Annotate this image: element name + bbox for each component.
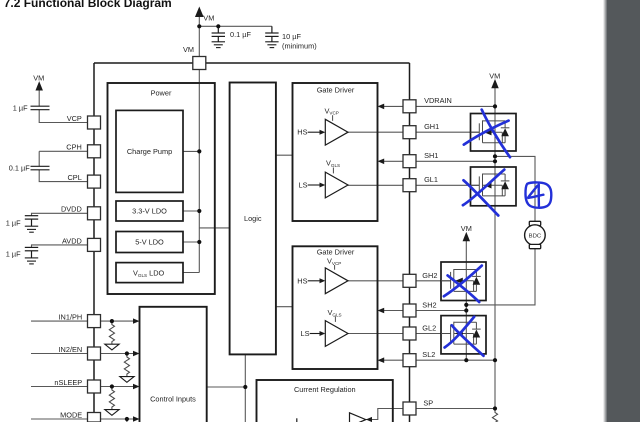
wire HS2 output to GH2 pin: [348, 280, 403, 282]
svg-text:GH1: GH1: [424, 122, 439, 131]
pin SH1: [403, 155, 416, 168]
svg-text:VDRAIN: VDRAIN: [424, 96, 452, 105]
svg-text:GH2: GH2: [422, 271, 437, 280]
wire SP pin to shunt node: [416, 408, 495, 410]
device outline left edge: [93, 63, 95, 422]
wire VM cap lead top left: [38, 89, 40, 106]
pulldown arrow R1: [105, 344, 119, 350]
gray sidebar panel: [607, 0, 640, 422]
svg-text:BDC: BDC: [529, 233, 542, 239]
device outline top edge: [94, 62, 410, 64]
svg-text:VM: VM: [183, 45, 194, 54]
wire FET1 source column: [494, 151, 496, 206]
amp HS1 triangle: [325, 119, 348, 145]
pin MODE: [88, 413, 101, 422]
wire CPH: [39, 150, 87, 152]
svg-text:VM: VM: [489, 71, 500, 80]
wire top bypass caps horizontal: [199, 25, 272, 27]
wire SH2 pin to FET node: [416, 310, 466, 312]
svg-text:SH2: SH2: [422, 300, 436, 309]
svg-text:0.1 µF: 0.1 µF: [230, 30, 251, 39]
arrow into gate driver 1 VDRAIN: [378, 104, 385, 110]
wire FET2 column between boxes: [465, 301, 467, 354]
wire LS1 output to GL1 pin: [348, 184, 403, 186]
block Gate Driver 1: [293, 83, 378, 221]
svg-text:1 µF: 1 µF: [13, 104, 28, 113]
annotation blue X over Q2: [463, 170, 504, 216]
arrow into control inputs nSLEEP: [133, 384, 140, 389]
wire Logic to Gate Driver 2: [276, 306, 293, 308]
arrow into control inputs IN1/PH: [133, 318, 140, 323]
wire GH2 pin to FET gate: [416, 280, 451, 282]
wire MODE: [31, 418, 136, 420]
svg-text:AVDD: AVDD: [62, 236, 82, 245]
pin GH2: [403, 274, 416, 287]
svg-text:CPL: CPL: [68, 173, 82, 182]
resistor R2 pulldown IN2/EN: [124, 354, 129, 377]
block 3.3-V LDO: [116, 201, 183, 221]
wire charge pump output stub: [183, 150, 199, 152]
capacitor C2 10uF top: [265, 26, 278, 42]
wire low-side FET2 source drop: [465, 354, 467, 360]
resistor R1 pulldown IN1/PH: [109, 321, 114, 344]
pin SH2: [403, 304, 416, 317]
pin GL1: [403, 179, 416, 192]
mosfet Q1 high-side box: [471, 114, 517, 152]
svg-text:SH1: SH1: [424, 151, 438, 160]
annotation blue circled A: [525, 182, 551, 207]
amp LS1 triangle: [325, 172, 348, 198]
pin CPL: [88, 175, 101, 188]
wire VM bus from VM pin down through Power block: [198, 70, 200, 273]
capacitor C4 0.1uF between CPH CPL: [31, 166, 50, 170]
block Control Inputs: [140, 307, 207, 422]
pin CPH: [88, 145, 101, 158]
svg-text:GL1: GL1: [424, 175, 438, 184]
capacitor C5 1uF at DVDD: [25, 216, 38, 227]
pin IN1/PH: [88, 315, 101, 328]
wire VDRAIN pin to FET drain: [416, 105, 495, 107]
wire SL2 pin to shunt node: [416, 359, 495, 361]
block Logic: [230, 83, 276, 355]
svg-text:VCP: VCP: [67, 114, 82, 123]
pin SP: [403, 402, 416, 415]
ground for C6: [25, 258, 38, 264]
arrow into gate driver 2 SH2: [378, 308, 385, 314]
block Power: [108, 83, 215, 294]
svg-text:SL2: SL2: [422, 350, 435, 359]
pin VM: [193, 57, 206, 70]
pulldown arrow R2: [120, 377, 134, 383]
block VGLS LDO: [116, 263, 183, 283]
svg-text:Logic: Logic: [244, 214, 262, 223]
wire nSLEEP: [31, 386, 136, 388]
wire VM drop through high-side FET 2: [465, 241, 467, 301]
wire GL1 pin to FET gate: [416, 184, 479, 186]
svg-text:VM: VM: [461, 224, 472, 233]
pin VCP: [88, 116, 101, 129]
svg-text:HS: HS: [297, 128, 307, 137]
ground for C5: [25, 226, 38, 232]
arrow into control inputs IN2/EN: [133, 351, 140, 356]
svg-text:CPH: CPH: [66, 143, 82, 152]
wire VDRAIN pin to gate driver 1: [384, 105, 403, 107]
svg-text:VGLS LDO: VGLS LDO: [133, 269, 165, 278]
wire CPH cap drop: [38, 151, 40, 166]
block Charge Pump: [116, 110, 183, 192]
wire IN2/EN: [31, 353, 136, 355]
wire SH2 pin to gate driver 2: [384, 310, 403, 312]
resistor R3 pulldown nSLEEP: [109, 387, 114, 410]
svg-text:SP: SP: [423, 399, 433, 408]
svg-text:VM: VM: [33, 74, 44, 83]
pin IN2/EN: [88, 347, 101, 360]
svg-text:Control Inputs: Control Inputs: [150, 394, 196, 403]
arrow into gate driver 1 SH1: [378, 159, 385, 165]
ground for C1: [212, 42, 225, 48]
wire DVDD: [32, 213, 88, 215]
pin VDRAIN: [403, 100, 416, 113]
svg-text:IN1/PH: IN1/PH: [59, 313, 83, 322]
svg-text:1 µF: 1 µF: [6, 249, 21, 258]
pulldown arrow R3: [105, 410, 119, 416]
wire Logic bottom down to current regulation: [244, 354, 246, 422]
block 5-V LDO: [116, 232, 183, 253]
mosfet Q4 internals: [441, 322, 481, 344]
arrow into gate driver 2 SL2: [378, 357, 385, 363]
svg-text:Gate Driver: Gate Driver: [317, 85, 355, 94]
svg-text:3.3-V LDO: 3.3-V LDO: [132, 207, 167, 216]
wire SH1 pin to gate driver 1: [384, 160, 403, 162]
block Gate Driver 2: [293, 246, 378, 369]
svg-text:IN2/EN: IN2/EN: [59, 345, 83, 354]
svg-text:DVDD: DVDD: [61, 205, 82, 214]
svg-text:LS: LS: [301, 329, 310, 338]
svg-text:7.2 Functional Block Diagram: 7.2 Functional Block Diagram: [4, 0, 172, 10]
wire GL2 pin to FET gate: [416, 333, 451, 335]
wire HS1 output to GH1 pin: [348, 131, 403, 133]
wire Control Inputs to logic drop: [207, 386, 246, 388]
pin AVDD: [88, 238, 101, 251]
wire SH1 pin to FET node: [416, 160, 495, 162]
wire VCP from cap to pin: [39, 110, 87, 123]
motor BDC body: [525, 225, 546, 246]
device outline right edge: [409, 63, 411, 422]
svg-text:nSLEEP: nSLEEP: [54, 378, 82, 387]
mosfet Q1 internals: [471, 120, 510, 142]
capacitor C3 1uF at VCP: [31, 106, 50, 110]
svg-text:0.1 µF: 0.1 µF: [9, 163, 30, 172]
pin GH1: [403, 126, 416, 139]
power symbol VM arrow top center: [196, 8, 203, 17]
current sense amp in current regulation: [350, 413, 366, 422]
VGLS stub 2: [334, 316, 336, 322]
wire Power to Logic: [199, 227, 229, 229]
HS1 input arrow: [308, 131, 321, 133]
resistor R4 pulldown MODE: [126, 419, 128, 422]
wire low-side FET1 source long drop to shunt: [494, 206, 496, 409]
power symbol VM arrow above Q3: [463, 233, 469, 241]
svg-text:LS: LS: [299, 181, 308, 190]
shunt resistor below SP node: [492, 409, 497, 422]
wire 5-V LDO stub: [183, 241, 199, 243]
wire GH1 pin to FET gate: [416, 131, 479, 133]
VVCP stub 2: [334, 265, 336, 270]
block Current Regulation: [257, 380, 393, 422]
wire VM supply top vertical: [198, 16, 200, 56]
svg-text:VM: VM: [203, 14, 214, 23]
pin DVDD: [88, 207, 101, 220]
mosfet Q3 internals: [441, 269, 481, 291]
motor BDC terminal bottom: [529, 244, 540, 248]
capacitor C6 1uF at AVDD: [25, 247, 38, 258]
ground for C2: [265, 42, 278, 48]
svg-text:1 µF: 1 µF: [6, 219, 21, 228]
amp input arrowhead from SP: [366, 417, 372, 422]
motor BDC terminal top: [529, 221, 540, 225]
pin GL2: [403, 327, 416, 340]
wire VM drop through high-side FET 1: [494, 88, 496, 152]
mosfet Q2 internals: [471, 174, 510, 196]
power symbol VM arrow left: [36, 83, 42, 91]
wire AVDD: [32, 245, 88, 248]
svg-text:Current Regulation: Current Regulation: [294, 385, 356, 394]
wire SH1 node to motor branch: [495, 156, 535, 221]
svg-text:HS: HS: [297, 276, 307, 285]
svg-text:Gate Driver: Gate Driver: [317, 247, 355, 256]
svg-text:10 µF: 10 µF: [282, 32, 301, 41]
mosfet Q2 low-side box: [471, 167, 517, 206]
svg-text:Charge Pump: Charge Pump: [127, 147, 172, 156]
wire Logic to Gate Driver 1: [276, 154, 293, 156]
mosfet Q4 low-side box: [441, 316, 486, 354]
partial symbol at bottom of current regulation: [296, 418, 298, 422]
wire LS2 output to GL2 pin: [348, 333, 403, 335]
wire IN1/PH: [31, 320, 136, 322]
amp HS2 triangle: [325, 268, 348, 294]
VGLS stub 1: [332, 168, 334, 174]
svg-text:MODE: MODE: [60, 410, 82, 419]
wire motor bottom to SH2 branch: [466, 249, 535, 305]
VVCP stub 1: [332, 115, 334, 121]
annotation blue X over Q3: [444, 266, 482, 302]
pin SL2: [403, 354, 416, 367]
annotation blue X over Q1: [464, 110, 510, 158]
wire 3.3-V LDO stub: [183, 210, 199, 212]
mosfet Q3 high-side box: [441, 262, 486, 301]
annotation blue X over Q4: [445, 317, 484, 356]
arrow into control inputs MODE: [133, 416, 140, 421]
svg-text:GL2: GL2: [422, 323, 436, 332]
capacitor C1 0.1uF top: [212, 26, 225, 42]
svg-text:(minimum): (minimum): [282, 42, 317, 51]
LS1 input arrow: [308, 184, 321, 186]
wire SL2 pin to gate driver 2: [384, 359, 403, 361]
svg-text:5-V LDO: 5-V LDO: [135, 238, 164, 247]
amp LS2 triangle: [325, 321, 348, 347]
power symbol VM arrow above Q1: [492, 80, 498, 88]
svg-text:Power: Power: [151, 89, 172, 98]
LS2 input arrow: [310, 333, 321, 335]
wire CPL from cap: [39, 170, 87, 182]
pin nSLEEP: [88, 380, 101, 393]
HS2 input arrow: [308, 280, 321, 282]
wire VGLS LDO stub: [183, 272, 199, 274]
wire SP pin into current regulation amp: [366, 409, 403, 420]
